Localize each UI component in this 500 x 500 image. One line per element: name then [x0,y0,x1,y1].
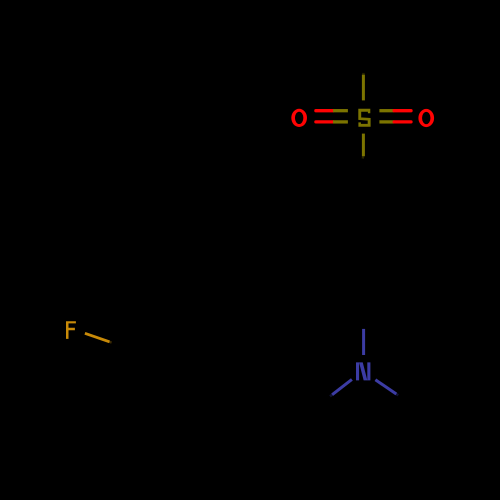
wire fade tail above CH3-S bond [362,73,365,75]
double bond S=O left, upper line (red O half) [316,109,333,112]
bond N-C ring left (N-colored half) [332,379,352,394]
double bond S=O right, upper line (red O half) [394,109,411,112]
bond S-C(aryl) (S-colored half) [362,134,365,157]
atom S [358,109,370,127]
bond C(aryl)-N (N-colored half) [362,329,365,355]
double bond S=O right, upper line (olive S half) [379,109,394,112]
bond N-C ring right (N-colored half) [375,380,396,394]
double bond S=O right, lower line (red O half) [394,120,411,123]
double bond S=O left, upper line (olive S half) [333,109,348,112]
double bond S=O left, lower line (red O half) [316,120,333,123]
wire fade tail at C end of N right ring bond [396,394,398,395]
wire fade tail below S-C(aryl) bond [362,156,365,159]
wire fade tail at C end of N left ring bond [330,395,332,397]
atom O (right) [418,109,434,127]
bond CH3-S (S-colored half) [362,75,365,101]
atom O (left) [291,109,307,127]
atom F [66,321,76,339]
double bond S=O right, lower line (olive S half) [379,120,394,123]
wire fade tail at C end of F bond [109,341,111,344]
bond F-C (F-colored half) [85,333,110,342]
double bond S=O left, lower line (olive S half) [333,120,348,123]
atom N [356,362,370,380]
